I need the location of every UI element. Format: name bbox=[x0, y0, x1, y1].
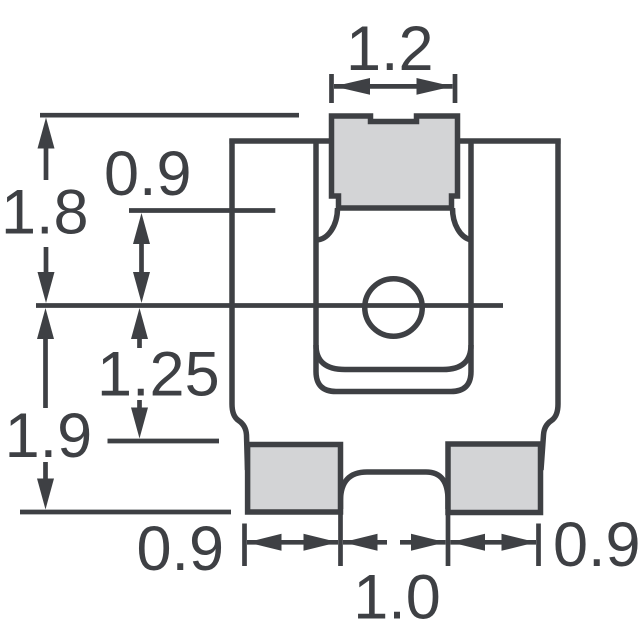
dim 1.2 arrow left bbox=[334, 78, 370, 95]
rotor cavity left wall bbox=[313, 141, 319, 372]
dim 0.9 left arrow down bbox=[133, 272, 150, 303]
svg-text:0.9: 0.9 bbox=[104, 139, 192, 209]
dim 1.9 arrow down bbox=[37, 479, 54, 510]
dim 1.2 line bbox=[334, 84, 453, 89]
bottom dim line seg 0.9 right bbox=[451, 540, 537, 545]
dim 0.9 left arrow up bbox=[133, 213, 150, 244]
body right side wall with step bbox=[541, 139, 558, 471]
ref line bottom (1.9 lower / pad base) bbox=[20, 510, 231, 515]
bottom hump between pads bbox=[341, 472, 449, 509]
body outline top edge bbox=[229, 138, 560, 144]
dim 1.25 arrow down bbox=[131, 408, 148, 439]
dim 1.2 tick left bbox=[329, 74, 334, 103]
dim 0.9 left shaft bbox=[139, 243, 144, 273]
dim 1.8 arrow down bbox=[38, 272, 55, 303]
ref line 1.25 lower bbox=[108, 439, 220, 444]
dim 1.2 arrow right bbox=[417, 78, 453, 95]
svg-text:1.0: 1.0 bbox=[353, 562, 441, 632]
svg-text:0.9: 0.9 bbox=[137, 514, 225, 584]
dim 1.25 arrow up bbox=[131, 308, 148, 339]
bottom dim 1.0 arrows bbox=[343, 534, 378, 551]
svg-text:1.2: 1.2 bbox=[346, 14, 434, 84]
bottom dim 0.9 right arrows bbox=[451, 534, 486, 551]
rotor inner rounded bottom bbox=[316, 345, 471, 370]
rotor terminal pad (top) bbox=[332, 116, 458, 208]
bottom dim line seg 0.9 left bbox=[247, 540, 338, 545]
rotor cavity right wall bbox=[468, 141, 474, 372]
body left side wall with step bbox=[232, 139, 248, 471]
dim 1.9 arrow up bbox=[37, 308, 54, 339]
wiper hole circle bbox=[365, 279, 423, 337]
fillet right below rotor pad bbox=[452, 208, 471, 240]
center reference line bbox=[36, 303, 503, 308]
svg-text:1.9: 1.9 bbox=[5, 401, 93, 471]
ref line top (1.8 upper) bbox=[40, 113, 299, 118]
bottom dim tick 2 bbox=[338, 513, 343, 566]
bottom dim tick 3 bbox=[446, 513, 451, 566]
bottom dim tick 1 bbox=[242, 524, 247, 567]
bottom dim line seg 1.0 (broken) bbox=[343, 540, 387, 545]
svg-text:0.9: 0.9 bbox=[553, 510, 640, 580]
ref line 0.9 left bbox=[129, 208, 275, 213]
svg-text:1.8: 1.8 bbox=[1, 178, 89, 248]
bottom dim 0.9 left arrows bbox=[247, 534, 282, 551]
dim 1.8 arrow up bbox=[38, 118, 55, 149]
pad terminal 2 (bottom right) bbox=[448, 444, 541, 513]
bottom dim tick 4 bbox=[536, 524, 541, 567]
dim 1.2 tick right bbox=[453, 74, 458, 103]
pad terminal 1 (bottom left) bbox=[248, 445, 341, 513]
rotor outer flange rounded bottom bbox=[316, 372, 471, 392]
svg-text:1.25: 1.25 bbox=[97, 340, 220, 410]
fillet left below rotor pad bbox=[316, 208, 338, 240]
